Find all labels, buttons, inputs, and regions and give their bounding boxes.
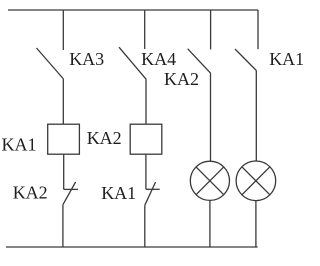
- contact KA2 seat (NC): [64, 188, 78, 190]
- wire branch4 to lamp: [255, 71, 257, 161]
- wire branch2 upper terminal: [144, 10, 146, 49]
- wire top supply rail: [8, 9, 258, 11]
- wire branch3 to lamp: [210, 73, 212, 161]
- svg-text:KA1: KA1: [269, 49, 304, 69]
- contact KA2 blade (NO): [188, 49, 211, 74]
- svg-text:KA1: KA1: [101, 183, 136, 203]
- svg-text:KA3: KA3: [69, 49, 104, 69]
- svg-text:KA1: KA1: [2, 135, 37, 155]
- wire branch4 to bottom rail: [255, 201, 257, 247]
- contact KA3 blade (NO): [37, 48, 64, 79]
- contact KA1 blade (NC): [145, 182, 156, 205]
- contact KA2 blade (NC): [63, 182, 76, 205]
- wire branch4 upper terminal: [257, 10, 259, 49]
- wire branch2 to bottom rail: [144, 205, 146, 247]
- wire branch1 upper terminal: [62, 10, 64, 50]
- contact KA1 blade (NO): [235, 49, 256, 71]
- svg-text:KA2: KA2: [164, 69, 199, 89]
- coil KA2: [130, 124, 162, 154]
- lamp HL1 cross: [196, 167, 224, 195]
- wire branch1 to bottom rail: [62, 205, 64, 247]
- svg-text:KA4: KA4: [141, 49, 176, 69]
- wire coil KA1 to NC contact: [63, 154, 65, 189]
- coil KA1: [48, 124, 80, 154]
- lamp HL2 cross: [242, 167, 270, 195]
- svg-text:KA2: KA2: [13, 183, 48, 203]
- wire branch3 upper terminal: [210, 10, 212, 49]
- wire branch2 to coil: [145, 79, 147, 124]
- svg-text:KA2: KA2: [87, 128, 122, 148]
- contact KA1 seat (NC): [146, 188, 160, 190]
- lamp HL1 circle: [190, 161, 229, 200]
- contact KA4 blade (NO): [119, 47, 146, 79]
- wire bottom supply rail: [6, 246, 258, 248]
- wire coil KA2 to NC contact: [145, 154, 147, 189]
- wire branch3 to bottom rail: [209, 200, 211, 247]
- lamp HL2 circle: [236, 161, 276, 201]
- wire branch1 to coil: [62, 79, 64, 124]
